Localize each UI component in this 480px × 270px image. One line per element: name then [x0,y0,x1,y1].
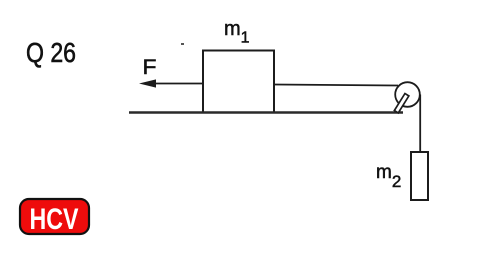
pulley bracket [394,94,408,113]
force arrow F head [139,79,156,87]
string pulley to m2 [419,95,421,153]
stray dot [181,43,184,45]
hanging mass m2 [411,152,428,200]
svg-text:F: F [143,56,157,79]
svg-text:Q 26: Q 26 [26,37,76,68]
pulley wheel [395,82,420,107]
svg-text:HCV: HCV [30,203,79,236]
string block to pulley [274,85,398,86]
ground surface [129,111,403,113]
block m1 [203,51,274,113]
HCV badge [20,199,89,234]
force arrow F wire [152,83,203,85]
